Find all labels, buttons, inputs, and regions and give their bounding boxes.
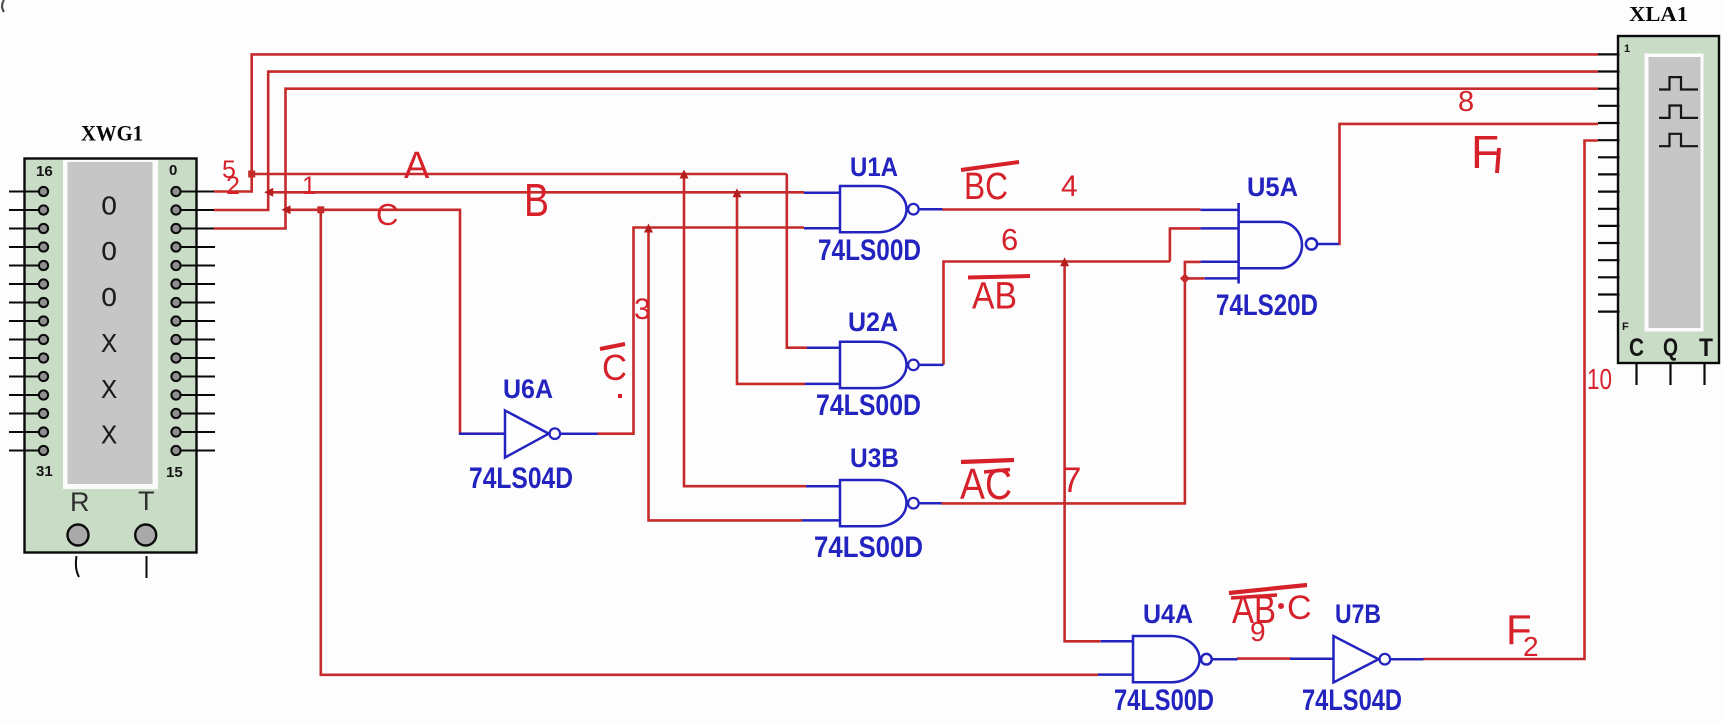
svg-text:AB: AB [972, 276, 1017, 318]
junction arrow net B start [264, 188, 273, 197]
wire net 7 : U3B output to U5A input4 [941, 278, 1205, 503]
wire net C horizontal to U6A input [286, 210, 506, 434]
XWG1 right pins 0-15 [171, 187, 215, 455]
XWG1 left pins 16-31 [9, 187, 48, 455]
svg-text:C: C [1287, 589, 1312, 627]
XWG1 pattern display OOOXXX [101, 194, 117, 453]
inverter U7B body 74LS04D [1290, 636, 1424, 683]
svg-text:74LS00D: 74LS00D [814, 531, 923, 564]
svg-text:R: R [70, 487, 90, 517]
svg-text:AB: AB [1232, 588, 1276, 632]
wire net C : XWG1 pin2 up to XLA pin3 [214, 89, 1598, 229]
annotation F1 [1471, 126, 1499, 178]
svg-text:C: C [602, 347, 627, 388]
svg-text:74LS20D: 74LS20D [1216, 289, 1318, 322]
stray red dot [618, 394, 622, 398]
4-input NAND gate U5A body 74LS20D [1200, 203, 1338, 284]
wire net 7 branch to U5A input3 [1185, 262, 1201, 279]
annotation AB.C-bar [1229, 585, 1312, 632]
annotation F2 [1506, 606, 1539, 662]
svg-text:74LS04D: 74LS04D [1302, 684, 1402, 717]
svg-text:O: O [101, 194, 117, 224]
wire net A to U3B input1 [684, 174, 806, 486]
svg-text:8: 8 [1458, 86, 1474, 118]
NAND gate U1A body [804, 186, 943, 232]
junction arrow net Cbar / net 3 branch [644, 224, 653, 233]
svg-text:U5A: U5A [1247, 172, 1298, 202]
svg-text:XLA1: XLA1 [1629, 2, 1688, 26]
annotation AC-bar [960, 460, 1014, 509]
logic analyzer XLA1 body [1618, 36, 1719, 363]
wire net F2 : U7B output to XLA pin6 [1423, 141, 1598, 660]
svg-text:C: C [376, 197, 398, 232]
svg-text:74LS00D: 74LS00D [1114, 684, 1214, 717]
svg-text:A: A [404, 145, 430, 187]
svg-text:BC: BC [964, 166, 1008, 208]
svg-text:U4A: U4A [1143, 599, 1193, 629]
NAND gate U4A body [1098, 636, 1238, 682]
svg-text:O: O [101, 239, 117, 269]
annotation Cbar small [600, 344, 627, 388]
svg-text:X: X [101, 423, 117, 453]
wire net 6 : U2A output to U5A [944, 262, 1170, 365]
svg-text:C: C [1629, 334, 1644, 362]
inverter U6A body 74LS04D [459, 411, 598, 458]
terminal R [68, 525, 89, 578]
wire net A to U2A input1 [787, 174, 807, 348]
wire net B : XWG1 pin1 up to XLA pin2 [214, 72, 1598, 210]
terminal T [135, 525, 156, 579]
junction arrow net C start [282, 205, 291, 214]
wire net A horizontal branch [252, 173, 787, 176]
svg-text:16: 16 [36, 163, 53, 180]
svg-text:1: 1 [302, 172, 316, 200]
wire net 4 : U1A output to U5A input1 [942, 208, 1200, 211]
word generator XWG1 body [25, 159, 197, 553]
svg-text:6: 6 [1001, 222, 1018, 257]
svg-text:U7B: U7B [1335, 599, 1381, 629]
svg-text:U3B: U3B [850, 443, 899, 473]
svg-text:F: F [1622, 321, 1629, 333]
corner smudge [2, 0, 4, 12]
NAND gate U3B body [802, 480, 942, 526]
svg-text:74LS00D: 74LS00D [816, 389, 921, 422]
svg-text:O: O [101, 285, 117, 315]
wire net B to U2A input2 [737, 192, 805, 384]
svg-text:0: 0 [169, 162, 177, 179]
wire net 6 tie to U5A input2 [1170, 228, 1201, 261]
wire net A : XWG1 pin0 up to XLA pin1 [214, 54, 1598, 191]
svg-text:Q: Q [1663, 334, 1678, 362]
svg-text:U2A: U2A [848, 307, 898, 337]
svg-text:74LS00D: 74LS00D [818, 234, 921, 267]
svg-text:2: 2 [1523, 631, 1539, 662]
wire net C down to U4A input2 [321, 210, 1098, 675]
svg-text:3: 3 [634, 293, 651, 326]
svg-text:X: X [101, 377, 117, 407]
svg-text:10: 10 [1587, 364, 1612, 396]
wire net F1 : U5A output to XLA pin5 [1339, 124, 1598, 244]
waveform glyphs [1659, 77, 1698, 146]
svg-text:7: 7 [1062, 461, 1081, 500]
svg-text:F: F [1471, 126, 1499, 178]
svg-text:AC: AC [960, 460, 1012, 509]
junction dot net A [248, 171, 255, 178]
svg-text:2: 2 [226, 172, 240, 200]
svg-text:74LS04D: 74LS04D [469, 462, 573, 495]
junction dot net 7 [1180, 273, 1190, 283]
svg-text:T: T [138, 486, 155, 516]
annotation AB-bar [968, 276, 1030, 318]
wire net Cbar : U6A output up [597, 228, 804, 434]
annotation BC-bar [961, 162, 1019, 208]
svg-text:U1A: U1A [850, 152, 898, 182]
wire net 9 : U4A output to U7B input [1237, 657, 1291, 660]
XLA1 bottom pins C Q T [1637, 364, 1705, 385]
svg-text:T: T [1699, 334, 1713, 362]
svg-text:X: X [101, 331, 117, 361]
svg-text:4: 4 [1061, 170, 1078, 203]
svg-text:XWG1: XWG1 [81, 121, 143, 146]
svg-text:U6A: U6A [503, 374, 553, 404]
svg-text:31: 31 [36, 463, 53, 480]
junction arrow net B / U2A branch [733, 188, 742, 197]
junction dot net C [317, 206, 324, 213]
svg-text:1: 1 [1624, 43, 1630, 55]
wire net 6 down to U4A input1 [1065, 262, 1101, 642]
XLA1 left pins [1598, 54, 1620, 311]
svg-text:B: B [524, 174, 549, 226]
NAND gate U2A body [805, 342, 944, 388]
junction arrow net A / U3B branch [680, 170, 689, 179]
wire net B to U1A input1 [268, 191, 804, 194]
svg-text:15: 15 [166, 464, 183, 481]
wire net 3 : Cbar to U3B input2 [649, 228, 803, 521]
junction arrow net 6 / U4A branch [1060, 257, 1069, 266]
